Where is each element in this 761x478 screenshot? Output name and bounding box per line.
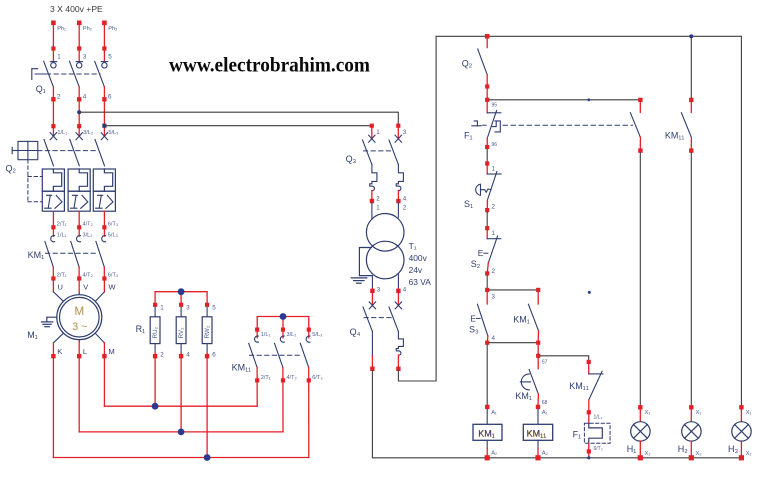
svg-text:3/L₂: 3/L₂ [287, 332, 297, 338]
contactor KM11 contact arcs [255, 336, 310, 342]
svg-text:KM₁₁: KM₁₁ [527, 428, 547, 438]
svg-text:3/L₂: 3/L₂ [83, 233, 93, 239]
svg-text:X₁: X₁ [696, 410, 702, 416]
contact KM1 holding blade [528, 304, 538, 331]
switch Q1 pole 1 [44, 61, 57, 87]
ground T1 [351, 248, 372, 284]
svg-text:5: 5 [212, 305, 216, 312]
Q2 I> glyphs [45, 195, 113, 208]
terminal square KM11 A2 [535, 455, 540, 460]
svg-text:1/L₁: 1/L₁ [261, 332, 271, 338]
terminal squares R1 top [153, 303, 209, 307]
button S3 blade [477, 304, 488, 336]
R1 leads top [155, 308, 207, 317]
terminal square KM1 A2 [485, 455, 490, 460]
resistor RV2 [176, 317, 186, 344]
lamp H2 terminal X2 [689, 455, 694, 460]
terminal square F1 heater bottom [587, 449, 591, 453]
svg-text:3/L₂: 3/L₂ [83, 130, 93, 136]
breaker Q2 terminal X marks [50, 133, 107, 140]
svg-text:3: 3 [186, 305, 190, 312]
wire H2 lamp in [690, 410, 692, 422]
terminal square node 95 [485, 98, 489, 102]
svg-text:4/T₂: 4/T₂ [83, 221, 93, 227]
terminal square node 96 [485, 145, 489, 149]
svg-text:6/T₃: 6/T₃ [312, 375, 322, 381]
terminal squares Q4 out [370, 367, 400, 371]
breaker Q4 X marks [369, 302, 401, 309]
svg-text:RU₂: RU₂ [152, 326, 159, 338]
motor M1 leads bottom [53, 333, 104, 343]
svg-text:RW₂: RW₂ [204, 325, 211, 338]
terminal square KM1 hold bottom [536, 341, 540, 345]
wire F1-NO stub [639, 102, 641, 112]
svg-text:6/T₃: 6/T₃ [108, 221, 118, 227]
svg-text:K: K [57, 347, 62, 356]
svg-text:2: 2 [403, 204, 407, 211]
svg-text:1/L₁: 1/L₁ [57, 233, 67, 239]
wire F1 heater out [588, 443, 590, 458]
contactor KM1 blades [45, 241, 104, 267]
terminal squares T1 secondary [370, 289, 400, 293]
junction dot F1 rail [587, 456, 590, 459]
lamp H3 [732, 422, 751, 441]
svg-text:S₁: S₁ [464, 199, 473, 209]
wire S1 in [486, 166, 488, 174]
wire H1 lamp in [639, 410, 641, 422]
terminal square branch corner [536, 354, 540, 358]
wire KM11 branch down [537, 345, 539, 369]
transformer T1 primary leads [372, 203, 399, 219]
wire F1 out [486, 138, 488, 148]
wire tap L2 to Q3 right pole [79, 112, 398, 123]
terminal squares KM11 power out [255, 378, 311, 382]
coil KM11 box [523, 424, 552, 440]
wire motor K down [52, 343, 54, 458]
svg-text:RV₂: RV₂ [178, 327, 185, 339]
wire KM11 aux out [690, 137, 692, 148]
svg-text:6: 6 [212, 352, 216, 359]
coil KM11 lead bottom [537, 440, 539, 448]
coil KM1 box [473, 424, 502, 440]
wire Q2 aux stub [486, 36, 488, 47]
svg-text:F₁: F₁ [464, 130, 473, 140]
svg-text:3: 3 [403, 129, 407, 136]
svg-text:3: 3 [83, 53, 87, 60]
wire KM11 NC stub [588, 364, 590, 374]
svg-text:H₁: H₁ [627, 444, 637, 454]
svg-text:KM₁: KM₁ [515, 391, 532, 401]
contact KM11 NC blade [589, 371, 602, 400]
wire KM11 power out [257, 367, 309, 457]
wire node4 to KM1 coil [486, 345, 488, 405]
svg-text:3: 3 [377, 286, 381, 293]
Q2 linkage dashed [38, 150, 96, 152]
F1 linkage dashed to F1-NO [503, 124, 633, 126]
wire S3 in [486, 292, 488, 304]
wire H2 lamp out [690, 441, 692, 458]
button S2 blade [488, 236, 497, 263]
KM11 linkage dashed [250, 354, 302, 356]
node L3 tap square [102, 124, 106, 128]
svg-text:X₁: X₁ [746, 410, 752, 416]
svg-text:4: 4 [186, 352, 190, 359]
switch Q1 pole 3 [95, 61, 108, 87]
svg-text:6/T₃: 6/T₃ [108, 273, 118, 279]
heater F1 dashed box [584, 423, 610, 443]
svg-text:2/T₁: 2/T₁ [261, 375, 271, 381]
svg-text:KM₁₁: KM₁₁ [569, 381, 589, 391]
Q4 linkage dashed [364, 317, 392, 319]
svg-text:R₁: R₁ [136, 324, 146, 334]
wire Q4 right pole up to control rail [398, 36, 741, 407]
wire R1 col2 down [180, 353, 182, 432]
motor M1 circles [57, 295, 102, 340]
heater F1 element [589, 423, 603, 443]
resistor RW2 [202, 317, 212, 344]
svg-text:www.electrobrahim.com: www.electrobrahim.com [169, 53, 370, 77]
wire timed out [537, 394, 539, 406]
svg-text:X₂: X₂ [696, 451, 702, 457]
Q4 left pole lead [371, 331, 373, 355]
wire Q4 out stubs [372, 355, 398, 369]
wire stub 96-1 [486, 149, 488, 161]
svg-text:X₂: X₂ [645, 451, 651, 457]
svg-text:2: 2 [160, 352, 164, 359]
svg-text:5/L₃: 5/L₃ [108, 233, 118, 239]
svg-text:F₁: F₁ [573, 429, 582, 439]
svg-text:S₂: S₂ [471, 259, 481, 269]
breaker Q2 blades [44, 139, 105, 165]
svg-text:1: 1 [376, 129, 380, 136]
wire stub S2-node3 [486, 276, 488, 288]
button S2 fixed bar [487, 238, 501, 240]
terminal squares KM11 power top [255, 328, 311, 332]
terminal square S2 pin1 [485, 226, 489, 230]
terminal squares motor bottom [51, 354, 106, 358]
terminal square KM1 A1 [485, 405, 489, 409]
junction dot stray [588, 291, 591, 294]
terminal square KM1 hold top [536, 288, 540, 292]
terminal squares supply [51, 21, 107, 51]
wire H3 lamp in [740, 410, 742, 422]
transformer T1 windings [366, 214, 404, 279]
terminal square KM11 A1 [536, 405, 540, 409]
Q3 linkage dashed [364, 150, 393, 152]
F1 thermal release bracket [492, 121, 500, 132]
junction dot small branch [587, 98, 590, 101]
svg-text:4: 4 [403, 286, 407, 293]
svg-text:KM₁₁: KM₁₁ [665, 131, 685, 141]
svg-text:2: 2 [376, 195, 380, 202]
wire Q3 out stubs [372, 191, 399, 204]
svg-text:KM₁: KM₁ [478, 428, 495, 438]
svg-text:KM₁₁: KM₁₁ [232, 363, 252, 373]
svg-text:68: 68 [542, 400, 548, 406]
lamp H2 [682, 422, 701, 441]
svg-text:T₁: T₁ [409, 241, 417, 251]
wire phase L2 incoming [78, 23, 80, 62]
wire Q2 out to KM1 [53, 211, 104, 236]
terminal square F1-NO bottom [638, 148, 642, 152]
svg-text:KM₁: KM₁ [28, 250, 45, 260]
junction dot L2 tap [77, 110, 81, 114]
junction dot top rail [689, 34, 693, 38]
svg-text:2: 2 [492, 268, 496, 275]
wire node4 link [489, 342, 538, 344]
svg-text:A₂: A₂ [491, 451, 497, 457]
wire T1 secondary stubs [372, 289, 398, 306]
svg-text:X₂: X₂ [746, 451, 752, 457]
terminal square KM11 NC top [587, 360, 591, 364]
svg-text:Q₂: Q₂ [6, 164, 17, 174]
lamp H1 terminal X1 [638, 405, 642, 409]
wire R1 col3 down [206, 353, 208, 458]
svg-text:L: L [83, 347, 87, 356]
wire H1 lamp out [639, 441, 641, 458]
lamp H1 terminal X2 [638, 455, 643, 460]
terminal square KM11 aux top [689, 98, 693, 102]
switch Q2 aux blade [478, 49, 488, 75]
terminal squares Q2 out [51, 225, 106, 229]
wire bus row C [53, 457, 308, 459]
terminal square F1-NO top [638, 98, 642, 102]
svg-text:V: V [83, 282, 88, 291]
wire F1-NO out [639, 137, 641, 148]
ground M1 [41, 317, 56, 327]
svg-text:Q₃: Q₃ [346, 154, 357, 164]
svg-text:63 VA: 63 VA [409, 277, 432, 287]
Q3 thermal squiggle pole1 [370, 165, 377, 191]
svg-text:Q₁: Q₁ [36, 84, 46, 94]
breaker Q3 terminal squares [370, 124, 401, 128]
wire R1 col1 down [154, 353, 156, 406]
wire KM11 aux column top [690, 36, 692, 97]
wire S1 out [486, 200, 488, 212]
contactor KM11 blades [249, 343, 309, 367]
svg-text:2: 2 [57, 94, 61, 101]
wire branch to F1 heater column [540, 356, 588, 360]
breaker Q3 blades [363, 140, 399, 165]
svg-text:2/T₁: 2/T₁ [57, 273, 67, 279]
contact KM1 holding stub [537, 292, 539, 304]
Q1 manual operator bracket [32, 69, 38, 80]
svg-text:2/T₁: 2/T₁ [57, 221, 67, 227]
svg-text:4: 4 [403, 195, 407, 202]
coil KM11 lead top [537, 409, 539, 424]
svg-text:1: 1 [160, 305, 164, 312]
wire bus row B [79, 431, 283, 433]
terminal squares R1 bottom [153, 354, 209, 358]
KM1 linkage dashed [46, 252, 98, 254]
node 4 square [485, 341, 489, 345]
svg-text:U: U [58, 282, 63, 291]
button S1 head [476, 184, 491, 195]
terminal square S1 pin1 [485, 161, 489, 165]
Q2 magnetic element boxes [42, 191, 115, 211]
wire S2 out [487, 263, 488, 274]
wire H3 lamp out [740, 441, 742, 458]
svg-text:4: 4 [83, 94, 87, 101]
svg-text:H₂: H₂ [678, 444, 688, 454]
svg-text:1: 1 [492, 230, 496, 237]
svg-text:1: 1 [376, 204, 380, 211]
svg-text:1: 1 [57, 53, 61, 60]
svg-text:1/L₁: 1/L₁ [57, 130, 67, 136]
svg-text:24v: 24v [409, 265, 423, 275]
svg-text:M: M [109, 347, 115, 356]
svg-text:3 ~: 3 ~ [72, 321, 87, 333]
terminal square F1 heater top [587, 410, 591, 414]
wire KM1 holding out [537, 331, 539, 343]
contactor KM1 contact arcs [51, 236, 106, 242]
Q2 operator cross box [12, 141, 38, 159]
svg-text:X₁: X₁ [645, 410, 651, 416]
wire node3 branch [489, 289, 538, 291]
svg-text:96: 96 [492, 142, 498, 148]
F1 trip actuator [472, 121, 481, 126]
junction dot row B [178, 429, 185, 436]
terminal square control tap [485, 34, 490, 39]
contact KM1 timed blade [529, 369, 538, 394]
breaker Q4 blades [363, 307, 398, 332]
svg-text:Ph₂: Ph₂ [83, 26, 92, 32]
svg-text:KM₁: KM₁ [513, 314, 530, 324]
coil KM1 lead top [486, 409, 488, 424]
wire S2 in [486, 230, 488, 238]
svg-text:M: M [74, 304, 84, 318]
svg-text:H₃: H₃ [728, 444, 738, 454]
svg-text:2: 2 [492, 204, 496, 211]
wire motor L down [78, 341, 80, 432]
motor M1 leads top [53, 292, 104, 301]
wire phase L3 incoming [103, 23, 105, 62]
wire Q1 out pole3 [103, 87, 105, 136]
svg-text:6/T₃: 6/T₃ [594, 446, 603, 452]
lamp H3 terminal X1 [739, 405, 743, 409]
button S1 blade [487, 171, 497, 200]
wire Q4 left pole to bottom rail [372, 371, 741, 458]
wire motor M down [103, 343, 105, 406]
wire Q1 out pole2 [78, 87, 80, 136]
contact F1 NC blade [487, 110, 496, 138]
transformer T1 secondary leads [372, 274, 398, 289]
wire Q3 in stubs [372, 128, 399, 139]
svg-text:Q₂: Q₂ [462, 58, 473, 68]
wire Q2 aux out [486, 75, 488, 113]
terminal squares Q3 out / T1 in [370, 199, 401, 203]
F1 linkage dashed left [483, 124, 487, 126]
svg-text:67: 67 [542, 360, 548, 366]
coil KM1 lead bottom [486, 440, 488, 448]
button S1 fixed bar [487, 173, 501, 175]
wire KM11 coil to rail [537, 449, 539, 458]
Q4 thermal squiggle pole2 [396, 331, 403, 355]
Q2 trip linkage dashed vertical [28, 160, 42, 202]
terminal square Q2 aux [485, 84, 489, 88]
lamp H1 [631, 422, 650, 441]
svg-text:E: E [478, 248, 484, 258]
svg-text:A₁: A₁ [491, 410, 497, 416]
svg-text:4/T₂: 4/T₂ [287, 375, 297, 381]
wire tap L3 to Q3 left pole [107, 125, 372, 127]
svg-text:4: 4 [492, 335, 496, 342]
svg-text:3 X 400v +PE: 3 X 400v +PE [50, 4, 103, 14]
wire H2 column [690, 153, 692, 405]
contact F1-NO blade [630, 113, 640, 138]
svg-text:5/L₃: 5/L₃ [312, 332, 322, 338]
contact KM11 aux blade [681, 113, 691, 138]
breaker Q3 X marks [369, 135, 402, 142]
svg-text:4/T₂: 4/T₂ [83, 273, 93, 279]
Q2 thermal glyphs [53, 169, 112, 191]
junction dot KM11 bus [280, 313, 287, 320]
Q1 mechanical linkage dashed [35, 73, 100, 75]
lamp H2 terminal X1 [689, 405, 693, 409]
terminal square KM11 aux bottom [689, 148, 693, 152]
contact KM11 NC fixed bar [589, 373, 603, 375]
svg-text:3: 3 [492, 293, 496, 300]
wire S3 out [486, 336, 489, 343]
junction dot row A [152, 403, 159, 410]
svg-text:400v: 400v [409, 253, 428, 263]
wire Q1 out pole1 [52, 87, 54, 136]
contact F1 NC fixed bar [487, 112, 501, 114]
svg-text:Q₄: Q₄ [350, 327, 361, 337]
terminal squares KM1 out [51, 276, 106, 280]
svg-text:A₂: A₂ [542, 451, 548, 457]
lamp H3 terminal X2 [739, 455, 744, 460]
wire stub S1-S2 [486, 212, 488, 226]
svg-text:S₃: S₃ [469, 324, 479, 334]
terminal square S1 pin2 [485, 208, 489, 212]
svg-text:5: 5 [108, 53, 112, 60]
wire KM11 aux stub [690, 102, 692, 112]
switch Q1 pole 2 [70, 61, 83, 87]
svg-text:6: 6 [108, 94, 112, 101]
svg-text:E: E [470, 313, 476, 323]
svg-text:95: 95 [492, 103, 498, 109]
svg-text:1/L₁: 1/L₁ [594, 415, 603, 421]
svg-text:Ph₃: Ph₃ [108, 26, 117, 32]
wire H1 column [639, 153, 641, 405]
resistor RU2 [150, 317, 160, 344]
wire KM1 out [53, 267, 104, 293]
contactor KM11 power top bus [257, 317, 309, 338]
Q3 thermal squiggle pole2 [396, 165, 403, 191]
resistor bank R1 top bus [155, 292, 207, 305]
node 3 square [485, 288, 489, 292]
R1 leads bottom [155, 344, 207, 353]
terminal squares Q1 out [51, 97, 106, 128]
svg-text:W: W [109, 282, 117, 291]
svg-text:1: 1 [492, 165, 496, 172]
junction dot row C [204, 454, 211, 461]
wire KM1 coil to rail [486, 449, 488, 458]
wire KM11 NC out [588, 400, 590, 410]
wire branch to lamps [489, 99, 638, 101]
svg-text:M₁: M₁ [27, 330, 38, 340]
junction dot R1 bus [178, 288, 185, 295]
wire bus row A [104, 405, 257, 407]
wire F1 heater in [588, 414, 590, 423]
Q2 thermal element boxes [42, 169, 115, 191]
terminal square S2 pin2 [485, 271, 489, 275]
svg-text:A₁: A₁ [542, 410, 548, 416]
wire phase L1 incoming [52, 23, 54, 62]
svg-text:5/L₃: 5/L₃ [108, 130, 118, 136]
contact KM1 timed delay symbol [520, 374, 530, 390]
